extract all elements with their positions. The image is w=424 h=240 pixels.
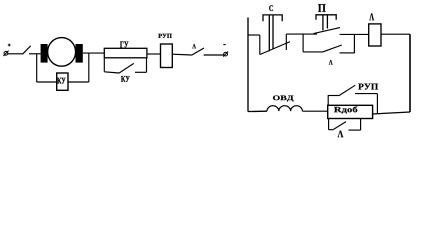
wire junction to KU branch [36,54,38,82]
contactor coil L [369,24,381,46]
field winding OVD [267,106,302,111]
box KU (controller) [57,73,68,90]
wire [104,72,119,73]
contact RUP branch left vertical [327,95,329,105]
label L under Rdob [338,131,344,138]
contact L blade [334,122,347,130]
label KU in box [57,78,65,84]
wire [83,52,105,54]
contact C arc chute [263,15,282,51]
motor armature M [48,38,76,67]
contact P blade [314,28,341,34]
wire [172,53,191,56]
wire [373,112,410,114]
terminal plus [3,51,8,56]
wire [381,33,410,35]
label plus sign [8,44,11,47]
contact RUP blade [339,85,355,95]
label KU under switch [121,76,130,82]
contact C right post [285,34,287,50]
wire [8,53,23,55]
contact C blade [260,42,290,55]
wire [147,53,161,55]
label minus sign [223,44,225,46]
label L (switch) [192,44,196,48]
wire [355,93,377,95]
label GU [120,42,129,48]
wire junction to L parallel branch [302,34,304,52]
wire KU branch bottom left [37,81,57,83]
resistor Rdob [328,105,373,118]
wire top row after P [340,33,369,35]
terminal minus [223,52,228,57]
wire top row [286,33,317,35]
wire [328,95,339,97]
contact C left post [259,35,261,55]
motor brush right [76,44,83,63]
wire [302,110,327,112]
contact P arc chute [316,15,336,30]
wire junction from KU branch [88,53,90,82]
label L under P [329,60,333,65]
motor brush left [41,44,48,63]
wire left edge of contactor loop [247,17,249,111]
switch KU branch right vertical [146,58,148,73]
label RUP right [358,84,378,90]
wire [329,129,334,131]
wire bottom left [248,110,267,112]
contact L parallel branch wire [303,51,322,53]
switch KU blade [119,63,134,73]
resistor GU [104,48,147,58]
wire [340,52,355,54]
switch L blade [192,48,205,55]
label RUP [158,34,172,38]
wire [349,129,361,131]
wire junction from L parallel branch [353,34,355,53]
wire [135,71,147,73]
wire KU branch bottom right [68,81,89,83]
contact L branch right vertical [360,119,362,131]
label Rdob [334,106,357,113]
wire [204,54,224,56]
contact C fixed stub [248,34,260,36]
switch KU branch left vertical [103,58,105,72]
wire [29,53,41,55]
wire right edge [409,34,411,112]
contact L blade [322,45,342,52]
relay coil RUP [161,44,173,68]
label P [318,4,326,12]
contact L under Rdob left vertical [328,119,330,130]
label OVD [273,96,294,102]
label C [269,5,273,11]
contact RUP branch right vertical [376,94,378,114]
switch blade (line switch left) [23,46,31,54]
label L coil [369,13,374,20]
